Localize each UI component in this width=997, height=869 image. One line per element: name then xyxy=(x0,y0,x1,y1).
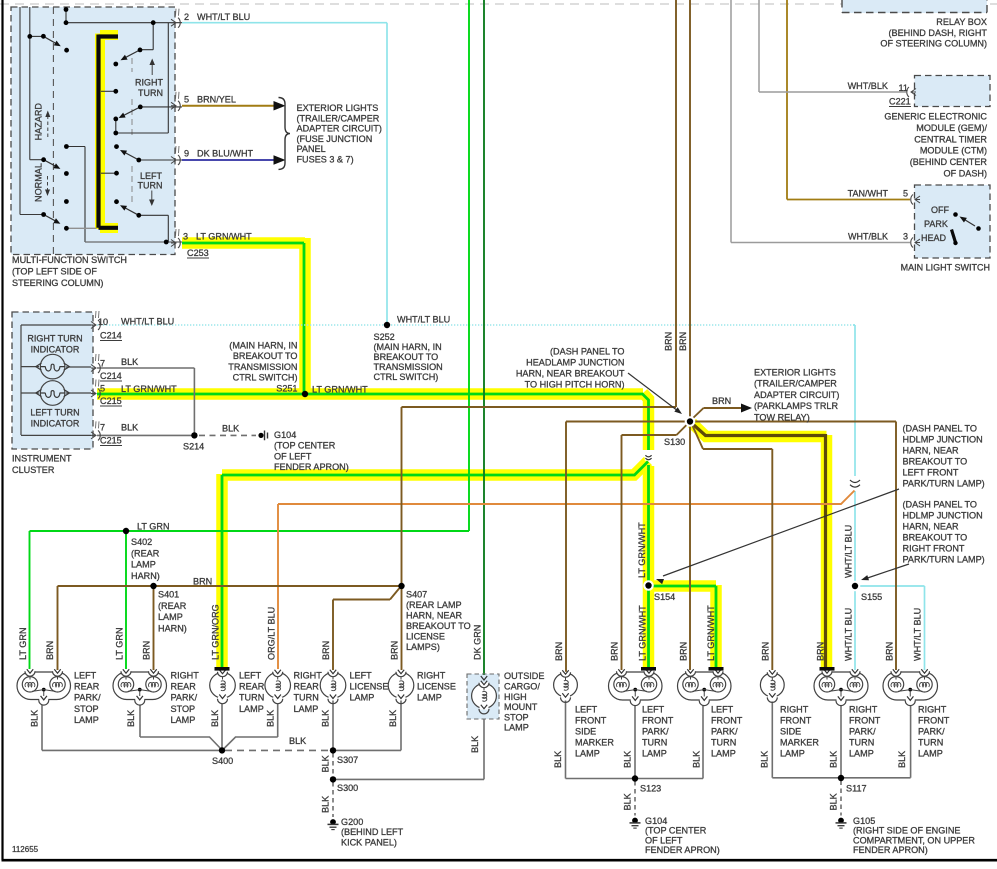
svg-text:BRN: BRN xyxy=(664,332,674,351)
svg-text:PARK/: PARK/ xyxy=(74,693,101,703)
svg-text:FENDER APRON): FENDER APRON) xyxy=(274,462,349,472)
svg-text:TAN/WHT: TAN/WHT xyxy=(848,189,889,199)
svg-text:2: 2 xyxy=(184,12,189,22)
svg-text:BREAKOUT TO: BREAKOUT TO xyxy=(903,456,968,466)
svg-text:LEFT: LEFT xyxy=(711,704,734,714)
svg-text:CENTRAL TIMER: CENTRAL TIMER xyxy=(914,134,987,144)
svg-text:TURN: TURN xyxy=(642,737,667,747)
svg-text:LICENSE: LICENSE xyxy=(406,631,445,641)
svg-text:LT GRN/ORG: LT GRN/ORG xyxy=(211,604,221,660)
svg-text:LT GRN/WHT: LT GRN/WHT xyxy=(706,605,716,661)
svg-text:LAMP: LAMP xyxy=(849,748,874,758)
svg-text:7: 7 xyxy=(100,423,105,433)
svg-text:RIGHT TURN: RIGHT TURN xyxy=(27,334,82,344)
svg-text:INDICATOR: INDICATOR xyxy=(31,345,80,355)
svg-text:LT GRN/WHT: LT GRN/WHT xyxy=(637,522,647,578)
svg-text:OFF: OFF xyxy=(931,205,949,215)
svg-text:LEFT FRONT: LEFT FRONT xyxy=(903,467,959,477)
svg-text:LT GRN: LT GRN xyxy=(115,627,125,660)
svg-text:CARGO/: CARGO/ xyxy=(504,682,540,692)
svg-text:SIDE: SIDE xyxy=(780,726,801,736)
svg-text:BRN: BRN xyxy=(712,396,731,406)
svg-text:BLK: BLK xyxy=(897,751,907,768)
svg-text:OF DASH): OF DASH) xyxy=(944,169,987,179)
svg-text:WHT/LT BLU: WHT/LT BLU xyxy=(197,12,250,22)
svg-text:BRN: BRN xyxy=(45,641,55,660)
svg-text:MODULE (CTM): MODULE (CTM) xyxy=(920,146,987,156)
svg-text:HARN, NEAR: HARN, NEAR xyxy=(903,521,960,531)
svg-text:CTRL SWITCH): CTRL SWITCH) xyxy=(374,372,439,382)
svg-text:LAMP: LAMP xyxy=(642,748,667,758)
svg-text:WHT/LT BLU: WHT/LT BLU xyxy=(913,608,923,661)
svg-text:HARN, NEAR BREAKOUT: HARN, NEAR BREAKOUT xyxy=(516,369,625,379)
svg-text:BREAKOUT TO: BREAKOUT TO xyxy=(903,532,968,542)
svg-text:BLK: BLK xyxy=(30,710,40,727)
svg-text:(BEHIND LEFT: (BEHIND LEFT xyxy=(341,827,404,837)
svg-text:LAMP: LAMP xyxy=(294,704,319,714)
svg-text:LEFT: LEFT xyxy=(140,171,163,181)
svg-text:TURN: TURN xyxy=(239,693,264,703)
svg-text:BLK: BLK xyxy=(321,796,331,813)
svg-text:PARK/: PARK/ xyxy=(642,726,669,736)
svg-text:KICK PANEL): KICK PANEL) xyxy=(341,837,397,847)
svg-text:FUSES 3 & 7): FUSES 3 & 7) xyxy=(297,154,354,164)
svg-text:TURN: TURN xyxy=(138,88,163,98)
svg-text:(DASH PANEL TO: (DASH PANEL TO xyxy=(550,346,624,356)
svg-text:BRN: BRN xyxy=(610,642,620,661)
svg-text:WHT/LT BLU: WHT/LT BLU xyxy=(844,525,854,578)
svg-text:OF LEFT: OF LEFT xyxy=(274,451,312,461)
svg-text:HARN, NEAR: HARN, NEAR xyxy=(903,445,960,455)
svg-text:WHT/LT BLU: WHT/LT BLU xyxy=(844,608,854,661)
svg-text:STEERING COLUMN): STEERING COLUMN) xyxy=(12,278,103,288)
svg-text:STOP: STOP xyxy=(171,704,196,714)
svg-text:BRN: BRN xyxy=(554,642,564,661)
svg-text:C214: C214 xyxy=(100,371,122,381)
svg-text:BLK: BLK xyxy=(553,751,563,768)
svg-text:BLK: BLK xyxy=(623,793,633,810)
svg-text:LEFT: LEFT xyxy=(575,704,598,714)
svg-text:TURN: TURN xyxy=(138,181,163,191)
svg-text:LT GRN: LT GRN xyxy=(137,522,170,532)
svg-text:LEFT TURN: LEFT TURN xyxy=(30,408,79,418)
svg-text:TRANSMISSION: TRANSMISSION xyxy=(374,362,443,372)
svg-text:LT GRN: LT GRN xyxy=(18,627,28,660)
svg-text:S117: S117 xyxy=(846,784,867,794)
svg-text:(BEHIND DASH, RIGHT: (BEHIND DASH, RIGHT xyxy=(888,28,987,38)
svg-text:(TOP LEFT SIDE OF: (TOP LEFT SIDE OF xyxy=(12,266,97,276)
svg-text:DK GRN: DK GRN xyxy=(473,625,483,660)
svg-text:WHT/BLK: WHT/BLK xyxy=(848,232,888,242)
svg-text:OF STEERING COLUMN): OF STEERING COLUMN) xyxy=(880,39,987,49)
svg-text:FENDER APRON): FENDER APRON) xyxy=(853,845,928,855)
svg-text:BLK: BLK xyxy=(760,751,770,768)
svg-text:S251: S251 xyxy=(276,383,297,393)
svg-text:LEFT: LEFT xyxy=(239,670,262,680)
svg-text:BRN: BRN xyxy=(761,642,771,661)
svg-text:5: 5 xyxy=(184,95,189,105)
svg-text:BLK: BLK xyxy=(289,736,306,746)
svg-text:PARK/: PARK/ xyxy=(849,726,876,736)
svg-text:CLUSTER: CLUSTER xyxy=(12,465,55,475)
svg-text:PARK/TURN LAMP): PARK/TURN LAMP) xyxy=(903,554,985,564)
svg-text:(DASH PANEL TO: (DASH PANEL TO xyxy=(903,499,977,509)
svg-text:LAMP: LAMP xyxy=(918,748,943,758)
svg-text:BRN: BRN xyxy=(193,577,212,587)
svg-text:BLK: BLK xyxy=(121,423,138,433)
svg-text:FRONT: FRONT xyxy=(711,715,743,725)
svg-text:(TRAILER/CAMPER: (TRAILER/CAMPER xyxy=(754,379,837,389)
svg-text:OF LEFT: OF LEFT xyxy=(645,835,683,845)
svg-text:LICENSE: LICENSE xyxy=(350,682,389,692)
svg-text:LEFT: LEFT xyxy=(642,704,665,714)
svg-text:11: 11 xyxy=(899,83,908,93)
svg-text:S407: S407 xyxy=(406,589,427,599)
svg-text:RELAY BOX: RELAY BOX xyxy=(936,17,987,27)
svg-text:10: 10 xyxy=(98,317,108,327)
svg-text:LAMP: LAMP xyxy=(171,715,196,725)
svg-text:TURN: TURN xyxy=(294,693,319,703)
svg-text:G104: G104 xyxy=(274,430,296,440)
svg-text:C214: C214 xyxy=(100,331,122,341)
svg-text:(FUSE JUNCTION: (FUSE JUNCTION xyxy=(297,134,373,144)
svg-text:REAR: REAR xyxy=(294,682,320,692)
svg-text:(TOP CENTER: (TOP CENTER xyxy=(645,826,707,836)
svg-text:C221: C221 xyxy=(889,97,911,107)
svg-text:BREAKOUT TO: BREAKOUT TO xyxy=(374,352,439,362)
svg-text:INDICATOR: INDICATOR xyxy=(31,419,80,429)
svg-text:G105: G105 xyxy=(853,816,875,826)
svg-text:DK BLU/WHT: DK BLU/WHT xyxy=(197,149,254,159)
svg-text:TURN: TURN xyxy=(711,737,736,747)
svg-text:NORMAL: NORMAL xyxy=(34,163,44,202)
svg-text:WHT/LT BLU: WHT/LT BLU xyxy=(397,315,450,325)
svg-text:LAMP: LAMP xyxy=(131,560,156,570)
svg-text:5: 5 xyxy=(903,189,908,199)
svg-text:RIGHT: RIGHT xyxy=(918,704,947,714)
svg-text:FENDER APRON): FENDER APRON) xyxy=(645,845,720,855)
svg-text:S130: S130 xyxy=(664,437,685,447)
svg-text:HIGH: HIGH xyxy=(504,692,527,702)
svg-text:HEAD: HEAD xyxy=(921,233,947,243)
svg-text:HARN): HARN) xyxy=(158,623,187,633)
svg-text:RIGHT: RIGHT xyxy=(417,670,446,680)
svg-text:TRANSMISSION: TRANSMISSION xyxy=(228,362,297,372)
svg-text:BLK: BLK xyxy=(266,710,276,727)
svg-text:LT GRN/WHT: LT GRN/WHT xyxy=(312,385,368,395)
svg-text:MOUNT: MOUNT xyxy=(504,702,538,712)
svg-text:ORG/LT BLU: ORG/LT BLU xyxy=(267,607,277,660)
svg-text:BRN: BRN xyxy=(679,642,689,661)
svg-text:BLK: BLK xyxy=(829,751,839,768)
svg-text:(TRAILER/CAMPER: (TRAILER/CAMPER xyxy=(297,113,380,123)
svg-text:(TOP CENTER: (TOP CENTER xyxy=(274,441,336,451)
svg-text:HDLMP JUNCTION: HDLMP JUNCTION xyxy=(903,434,983,444)
svg-text:PANEL: PANEL xyxy=(297,144,326,154)
svg-text:TURN: TURN xyxy=(849,737,874,747)
svg-text:5: 5 xyxy=(100,384,105,394)
svg-text:112655: 112655 xyxy=(12,845,39,854)
svg-text:(DASH PANEL TO: (DASH PANEL TO xyxy=(903,423,977,433)
svg-text:INSTRUMENT: INSTRUMENT xyxy=(12,454,72,464)
svg-text:RIGHT: RIGHT xyxy=(135,78,164,88)
svg-text:CTRL SWITCH): CTRL SWITCH) xyxy=(233,373,298,383)
svg-text:BLK: BLK xyxy=(222,424,239,434)
svg-text:BLK: BLK xyxy=(321,755,331,772)
svg-text:FRONT: FRONT xyxy=(780,715,812,725)
svg-text:OUTSIDE: OUTSIDE xyxy=(504,671,544,681)
svg-text:WHT/BLK: WHT/BLK xyxy=(848,81,888,91)
svg-text:LAMP: LAMP xyxy=(575,748,600,758)
svg-text:LAMP: LAMP xyxy=(239,704,264,714)
svg-text:S214: S214 xyxy=(183,442,204,452)
svg-text:C215: C215 xyxy=(100,396,122,406)
svg-text:(BEHIND CENTER: (BEHIND CENTER xyxy=(910,157,988,167)
svg-text:STOP: STOP xyxy=(504,712,529,722)
svg-text:LAMPS): LAMPS) xyxy=(406,642,440,652)
svg-text:REAR: REAR xyxy=(239,682,265,692)
svg-text:REAR: REAR xyxy=(74,682,100,692)
svg-text:FRONT: FRONT xyxy=(642,715,674,725)
svg-text:7: 7 xyxy=(100,359,105,369)
svg-text:TURN: TURN xyxy=(918,737,943,747)
svg-text:G104: G104 xyxy=(645,816,667,826)
svg-text:BLK: BLK xyxy=(470,736,480,753)
svg-text:(MAIN HARN, IN: (MAIN HARN, IN xyxy=(229,341,297,351)
svg-text:MARKER: MARKER xyxy=(780,737,819,747)
svg-text:(MAIN HARN, IN: (MAIN HARN, IN xyxy=(374,342,442,352)
svg-text:FRONT: FRONT xyxy=(575,715,607,725)
svg-text:ADAPTER CIRCUIT): ADAPTER CIRCUIT) xyxy=(297,124,382,134)
svg-text:S252: S252 xyxy=(374,332,395,342)
svg-text:(REAR: (REAR xyxy=(158,601,187,611)
svg-text:MODULE (GEM)/: MODULE (GEM)/ xyxy=(916,123,987,133)
svg-text:LAMP: LAMP xyxy=(504,723,529,733)
svg-text:LAMP: LAMP xyxy=(350,693,375,703)
svg-text:BLK: BLK xyxy=(126,710,136,727)
svg-text:ADAPTER CIRCUIT): ADAPTER CIRCUIT) xyxy=(754,390,839,400)
svg-text:RIGHT FRONT: RIGHT FRONT xyxy=(903,543,965,553)
svg-text:LAMP: LAMP xyxy=(711,748,736,758)
svg-text:HDLMP JUNCTION: HDLMP JUNCTION xyxy=(903,510,983,520)
svg-text:TOW RELAY): TOW RELAY) xyxy=(754,413,810,423)
svg-text:GENERIC ELECTRONIC: GENERIC ELECTRONIC xyxy=(884,112,987,122)
svg-text:PARK/TURN LAMP): PARK/TURN LAMP) xyxy=(903,478,985,488)
svg-text:HAZARD: HAZARD xyxy=(34,103,44,141)
svg-text:C215: C215 xyxy=(100,436,122,446)
svg-text:3: 3 xyxy=(183,232,188,242)
svg-text:BRN: BRN xyxy=(816,642,826,661)
svg-text:WHT/LT BLU: WHT/LT BLU xyxy=(121,317,174,327)
svg-text:(REAR: (REAR xyxy=(131,548,160,558)
svg-text:BRN: BRN xyxy=(321,641,331,660)
svg-text:REAR: REAR xyxy=(171,682,197,692)
svg-text:S154: S154 xyxy=(654,592,675,602)
svg-text:RIGHT: RIGHT xyxy=(171,670,200,680)
svg-text:PARK/: PARK/ xyxy=(711,726,738,736)
svg-text:S155: S155 xyxy=(861,592,882,602)
svg-text:LICENSE: LICENSE xyxy=(417,682,456,692)
svg-text:LAMP: LAMP xyxy=(780,748,805,758)
svg-text:SIDE: SIDE xyxy=(575,726,596,736)
svg-text:FRONT: FRONT xyxy=(918,715,950,725)
svg-text:COMPARTMENT, ON UPPER: COMPARTMENT, ON UPPER xyxy=(853,835,975,845)
svg-text:S307: S307 xyxy=(337,755,358,765)
svg-text:(PARKLAMPS TRLR: (PARKLAMPS TRLR xyxy=(754,401,838,411)
svg-text:S400: S400 xyxy=(212,756,233,766)
svg-text:BLK: BLK xyxy=(321,710,331,727)
svg-text:S401: S401 xyxy=(158,590,179,600)
svg-text:G200: G200 xyxy=(341,817,363,827)
svg-text:S123: S123 xyxy=(640,784,661,794)
svg-text:BRN: BRN xyxy=(142,641,152,660)
svg-text:BRN: BRN xyxy=(885,642,895,661)
svg-text:EXTERIOR LIGHTS: EXTERIOR LIGHTS xyxy=(754,367,836,377)
svg-text:BREAKOUT TO: BREAKOUT TO xyxy=(406,621,471,631)
svg-text:BREAKOUT TO: BREAKOUT TO xyxy=(233,351,298,361)
svg-text:LAMP: LAMP xyxy=(158,612,183,622)
svg-text:BLK: BLK xyxy=(121,357,138,367)
svg-text:TO HIGH PITCH HORN): TO HIGH PITCH HORN) xyxy=(525,380,625,390)
svg-text:PARK: PARK xyxy=(924,219,948,229)
svg-text:MARKER: MARKER xyxy=(575,737,614,747)
svg-text:BLK: BLK xyxy=(210,710,220,727)
svg-text:RIGHT: RIGHT xyxy=(294,670,323,680)
svg-text:BLK: BLK xyxy=(388,710,398,727)
svg-text:LT GRN/WHT: LT GRN/WHT xyxy=(638,605,648,661)
svg-text:BLK: BLK xyxy=(623,751,633,768)
svg-text:HARN, NEAR: HARN, NEAR xyxy=(406,610,463,620)
svg-text:BRN: BRN xyxy=(678,332,688,351)
svg-text:S300: S300 xyxy=(337,783,358,793)
svg-text:HARN): HARN) xyxy=(131,571,160,581)
svg-text:(REAR LAMP: (REAR LAMP xyxy=(406,600,462,610)
svg-text:LEFT: LEFT xyxy=(74,670,97,680)
svg-text:PARK/: PARK/ xyxy=(918,726,945,736)
svg-text:PARK/: PARK/ xyxy=(171,693,198,703)
svg-text:LT GRN/WHT: LT GRN/WHT xyxy=(121,384,177,394)
svg-text:MULTI-FUNCTION SWITCH: MULTI-FUNCTION SWITCH xyxy=(12,255,127,265)
svg-text:LAMP: LAMP xyxy=(74,715,99,725)
svg-text:LT GRN/WHT: LT GRN/WHT xyxy=(196,232,252,242)
svg-text:9: 9 xyxy=(184,149,189,159)
svg-text:RIGHT: RIGHT xyxy=(849,704,878,714)
svg-text:BLK: BLK xyxy=(829,793,839,810)
svg-text:MAIN LIGHT SWITCH: MAIN LIGHT SWITCH xyxy=(901,263,990,273)
svg-text:STOP: STOP xyxy=(74,704,99,714)
svg-text:EXTERIOR LIGHTS: EXTERIOR LIGHTS xyxy=(297,103,379,113)
svg-text:FRONT: FRONT xyxy=(849,715,881,725)
svg-text:LEFT: LEFT xyxy=(350,670,373,680)
svg-text:RIGHT: RIGHT xyxy=(780,704,809,714)
svg-text:BRN/YEL: BRN/YEL xyxy=(197,95,236,105)
svg-text:HEADLAMP JUNCTION: HEADLAMP JUNCTION xyxy=(526,357,624,367)
svg-text:LAMP: LAMP xyxy=(417,693,442,703)
svg-text:3: 3 xyxy=(903,232,908,242)
svg-text:BRN: BRN xyxy=(390,641,400,660)
svg-text:C253: C253 xyxy=(187,248,209,258)
svg-text:BLK: BLK xyxy=(692,751,702,768)
svg-text:(RIGHT SIDE OF ENGINE: (RIGHT SIDE OF ENGINE xyxy=(853,826,960,836)
svg-text:S402: S402 xyxy=(131,537,152,547)
